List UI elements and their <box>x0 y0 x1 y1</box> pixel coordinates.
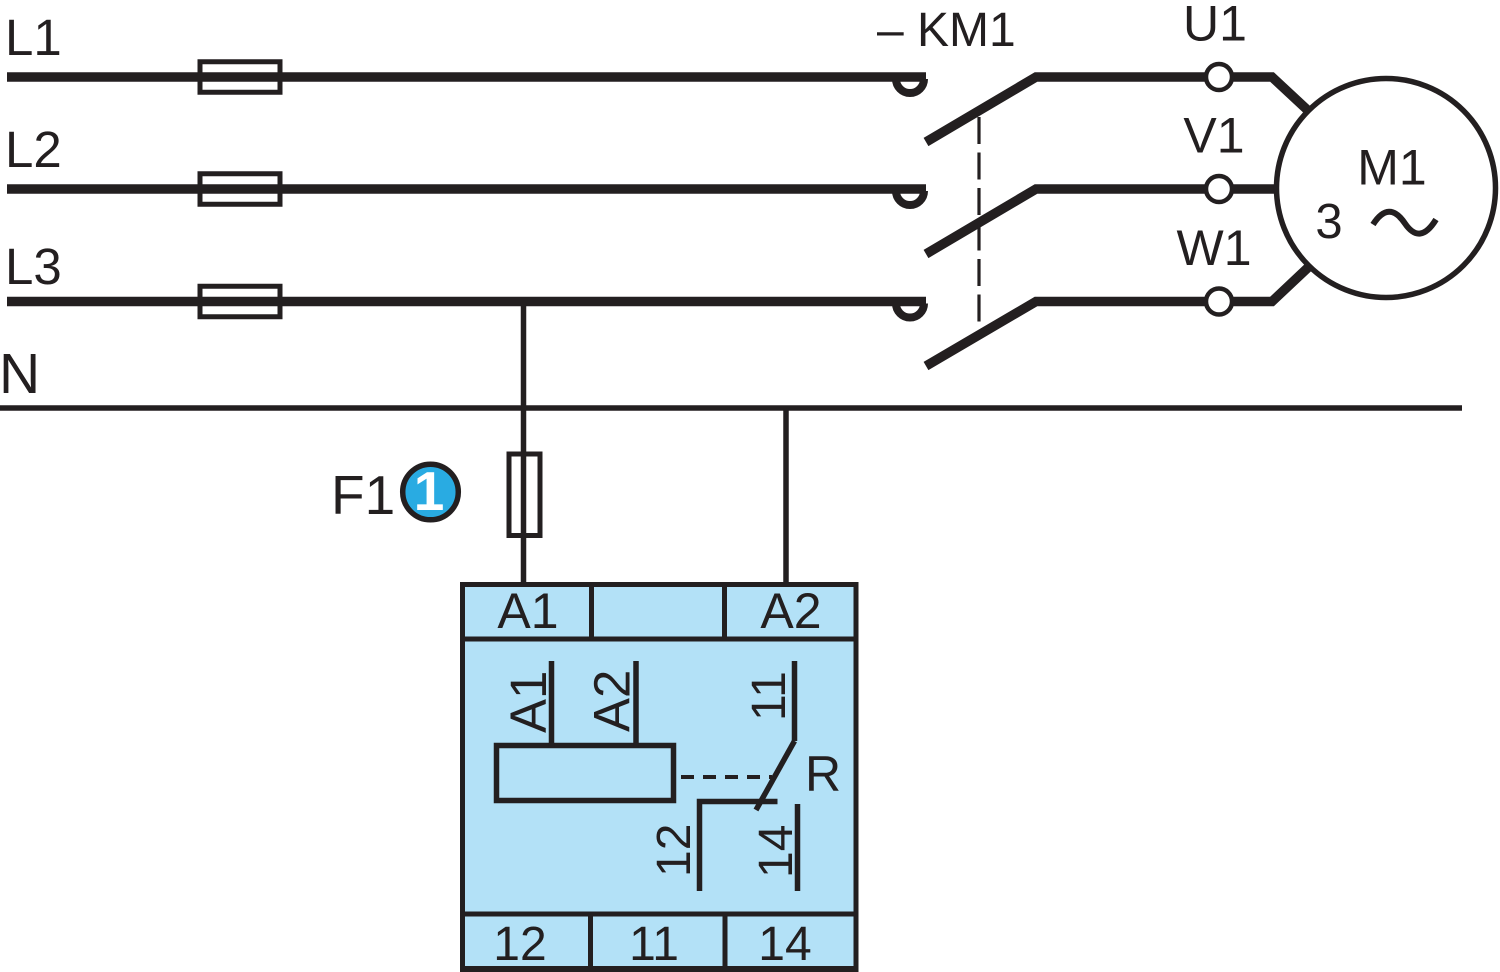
terminal W1 label <box>1177 220 1252 276</box>
wire from L3 down through F1 to relay A1 <box>521 302 527 583</box>
svg-text:R: R <box>805 746 841 802</box>
contactor KM1 pole 1 blade and wire to U1 <box>926 77 1218 142</box>
terminal V1 label <box>1183 108 1244 164</box>
contactor KM1 pole 2 fixed terminal <box>896 191 924 205</box>
wire W1 to motor <box>1218 261 1315 302</box>
wire U1 to motor <box>1218 77 1315 117</box>
node L3 label <box>5 238 62 295</box>
svg-text:12: 12 <box>648 824 701 877</box>
relay contact pin label 14 <box>750 825 803 878</box>
contactor KM1 linkage dashed line <box>977 117 980 323</box>
node N label <box>0 342 40 406</box>
svg-text:1: 1 <box>414 460 445 522</box>
terminal U1 label <box>1183 0 1247 52</box>
relay coil <box>497 746 674 801</box>
relay terminal A1 cell label <box>497 583 558 639</box>
svg-text:14: 14 <box>750 825 803 878</box>
terminal V1 <box>1206 176 1232 202</box>
svg-text:U1: U1 <box>1183 0 1247 52</box>
callout badge 1 <box>403 460 459 522</box>
contactor KM1 pole 3 fixed terminal <box>896 304 924 318</box>
fuse on L2 <box>200 174 280 205</box>
svg-text:11: 11 <box>629 918 679 971</box>
svg-text:M1: M1 <box>1357 140 1426 196</box>
svg-text:L2: L2 <box>5 121 62 178</box>
relay top row divider <box>460 637 858 642</box>
fuse F1 label <box>331 464 395 526</box>
fuse on L3 <box>200 286 280 317</box>
svg-text:A2: A2 <box>584 670 641 732</box>
node L1 label <box>5 9 62 66</box>
contactor KM1 pole 1 fixed terminal <box>896 79 924 93</box>
relay contact pin 14 lead <box>795 804 801 891</box>
contactor KM1 pole 2 blade and wire to V1 <box>926 189 1218 254</box>
relay bottom row divider <box>460 912 858 917</box>
svg-text:A1: A1 <box>497 583 558 639</box>
relay contact pin 12 lead <box>700 802 778 892</box>
wire L3 <box>7 297 926 307</box>
relay terminal 14 cell label <box>758 918 811 971</box>
motor AC tilde symbol <box>1373 212 1436 234</box>
svg-text:11: 11 <box>743 671 796 721</box>
wire N <box>0 405 1462 411</box>
relay linkage dashed line <box>681 775 772 779</box>
relay contact pin 11 lead <box>792 661 798 741</box>
terminal W1 <box>1206 289 1232 315</box>
relay coil lead A1 <box>549 661 555 748</box>
relay top row cell divider 2 <box>722 582 727 639</box>
relay contact pin label 12 <box>648 824 701 877</box>
relay terminal 12 cell label <box>493 918 546 971</box>
terminal U1 <box>1206 64 1232 90</box>
fuse F1 wire through <box>521 454 527 536</box>
svg-text:L1: L1 <box>5 9 62 66</box>
fuse on L1 <box>200 62 280 93</box>
contactor KM1 label <box>877 4 1016 57</box>
relay designator R <box>805 746 841 802</box>
wire L1 <box>7 72 926 82</box>
svg-text:12: 12 <box>493 918 546 971</box>
svg-text:A1: A1 <box>500 671 557 733</box>
relay coil pin label A1 <box>500 671 557 733</box>
relay top row cell divider 1 <box>589 582 594 639</box>
wire from N down to relay A2 <box>783 408 789 582</box>
relay terminal A2 cell label <box>760 583 821 639</box>
wire V1 to motor <box>1218 184 1290 194</box>
relay bottom row cell divider 2 <box>723 914 728 968</box>
motor M1 circle <box>1277 79 1496 298</box>
wire L2 <box>7 184 926 194</box>
node L2 label <box>5 121 62 178</box>
svg-text:V1: V1 <box>1183 108 1244 164</box>
motor M1 label <box>1357 140 1426 196</box>
relay coil lead A2 <box>633 661 639 748</box>
svg-text:3: 3 <box>1315 195 1342 249</box>
svg-text:– KM1: – KM1 <box>877 4 1016 57</box>
svg-text:A2: A2 <box>760 583 821 639</box>
svg-text:14: 14 <box>758 918 811 971</box>
relay bottom row cell divider 1 <box>588 914 593 968</box>
relay coil pin label A2 <box>584 670 641 732</box>
relay contact pin label 11 <box>743 671 796 721</box>
svg-text:N: N <box>0 342 40 406</box>
svg-text:F1: F1 <box>331 464 395 526</box>
relay terminal 11 cell label <box>629 918 679 971</box>
fuse F1 <box>509 454 540 536</box>
svg-text:W1: W1 <box>1177 220 1252 276</box>
relay contact blade <box>756 741 795 810</box>
svg-text:L3: L3 <box>5 238 62 295</box>
contactor KM1 pole 3 blade and wire to W1 <box>926 302 1218 367</box>
relay R body <box>460 585 859 972</box>
motor phase count 3 <box>1315 195 1342 249</box>
